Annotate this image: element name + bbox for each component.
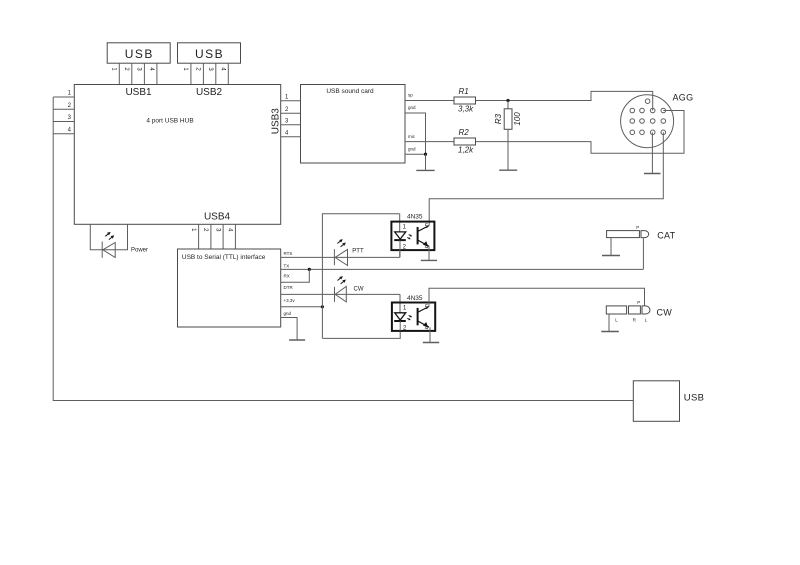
svg-text:gnd: gnd [408,147,416,152]
svg-text:1,2k: 1,2k [458,145,474,154]
LED Power wiring [90,224,127,250]
hub bottom pin 2 [202,224,211,249]
svg-text:4N35: 4N35 [407,214,423,221]
ground below AGG [644,173,661,175]
hub left pin 1 [53,91,74,97]
junction R1/R3 [506,99,509,102]
svg-text:P: P [637,300,640,305]
wire R1 to junction and AGG [476,91,653,110]
wire AGG PTT pin down-left to opto1 pin5 [429,132,663,225]
serial interface box [178,249,281,327]
USB plug box bottom right [633,381,704,422]
wire rail to opto2 pin2 [322,331,400,339]
hub right pin 3 [281,118,301,124]
hub right pin 1 (USB3) [281,94,301,100]
svg-text:RTS: RTS [284,251,293,256]
svg-text:USB4: USB4 [204,212,231,223]
connector USB1 pin 3 [136,63,145,84]
serial pin TX [281,263,644,269]
connector USB1 pin 1 [111,63,120,84]
svg-text:CW: CW [657,308,673,318]
svg-text:4N35: 4N35 [407,295,423,302]
optocoupler U2 4N35 upper [391,214,434,258]
wire opto1 pin4 to ground [428,246,430,260]
LED CW symbol [335,276,364,302]
junction +v rail [321,305,324,308]
wire opto2 pin4 to ground [429,327,431,342]
AGG pin row4 [630,130,666,135]
ground below opto1 [421,259,437,261]
hub left pin 4 [53,127,74,133]
svg-text:USB: USB [684,392,704,403]
sound card box [301,85,406,164]
hub bottom pin 4 [227,224,236,249]
svg-text:USB2: USB2 [196,87,223,98]
svg-text:CAT: CAT [657,231,675,241]
hub left pin 2 [53,103,74,109]
ground below sound card [416,169,434,171]
sound card pin mic [405,134,454,142]
connector USB2 pin 4 [220,63,229,84]
ground below opto2 [423,342,439,344]
svg-text:3,3k: 3,3k [458,105,474,114]
svg-text:gnd: gnd [284,311,292,316]
connector USB1 pin 4 [148,63,157,84]
svg-text:CW: CW [354,286,364,292]
serial pin DTR [281,285,400,294]
LED Power symbol [102,232,148,258]
hub right pin 4 [281,130,301,136]
connector USB1 box [107,43,170,63]
svg-text:R3: R3 [494,113,503,124]
ground below serial box [289,339,305,341]
serial pin +3,3v [281,298,323,307]
svg-text:AGG: AGG [673,93,694,103]
svg-text:R2: R2 [459,128,470,137]
hub right pin 2 [281,107,301,113]
sound card pin gnd upper [405,105,426,154]
wire PTT LED to opto1 pin2 [399,250,401,257]
svg-text:USB: USB [195,47,224,61]
svg-text:TX: TX [284,263,290,268]
svg-text:4 port USB HUB: 4 port USB HUB [146,117,193,124]
ground below CAT [602,255,620,257]
junction TX/RX [308,268,311,271]
wire R2 to AGG mic pin [476,111,685,154]
serial pin RX [281,269,310,282]
connector USB2 pin 3 [207,63,216,84]
wire R3 bottom stub [507,129,509,170]
svg-text:+3,3v: +3,3v [284,298,296,303]
wire CAT tip to TX line [642,238,644,269]
svg-text:sp: sp [408,93,413,98]
junction sound card gnd [424,153,427,156]
svg-text:mic: mic [408,134,416,139]
ground below CW [601,331,619,333]
wire CAT sleeve to ground [610,238,612,256]
connector USB2 pin 2 [195,63,204,84]
optocoupler U3 4N35 lower [392,295,435,332]
serial pin gnd [281,311,297,340]
wire +v rail [322,214,399,339]
svg-text:P: P [636,225,639,230]
svg-text:DTR: DTR [284,285,294,290]
serial pin RTS [281,251,400,257]
sound card pin gnd lower [405,147,426,155]
svg-text:PTT: PTT [352,248,364,254]
wire AGG gnd stub [651,132,653,173]
LED PTT symbol [334,239,364,265]
wire R3 top stub [507,101,509,109]
wire left bus down and across to USB plug [53,97,633,401]
wire CW LED to opto2 pin1 [399,294,401,312]
svg-text:R1: R1 [459,87,469,96]
resistor R3 [494,109,522,130]
hub bottom pin 3 [214,224,223,249]
sound card pin sp [405,93,454,101]
hub left pin 3 [53,115,74,121]
svg-text:USB: USB [125,47,154,61]
AGG pin row2 [630,108,666,113]
connector CW jack [606,300,672,322]
svg-text:USB3: USB3 [270,108,281,135]
svg-text:USB sound card: USB sound card [326,88,374,95]
wire gnd stub down [425,154,427,170]
connector CAT jack [607,225,676,241]
svg-text:Power: Power [131,247,148,253]
wire opto2 pin5 to CW tip [429,288,645,306]
connector USB2 box [178,43,241,63]
svg-text:USB1: USB1 [125,87,152,98]
connector AGG circle [621,93,694,148]
hub U1 4 port USB HUB box [74,85,281,225]
svg-text:RX: RX [284,274,290,279]
svg-text:USB to Serial (TTL) interface: USB to Serial (TTL) interface [182,254,266,261]
resistor R1 [454,87,476,114]
AGG pin top [645,99,650,104]
wire CW sleeve to ground [608,314,610,331]
svg-text:gnd: gnd [408,105,416,110]
connector USB1 pin 2 [123,63,132,84]
AGG pin row3 [630,119,666,124]
resistor R2 [454,128,476,155]
svg-text:100: 100 [513,112,522,126]
connector USB2 pin 1 [182,63,191,84]
ground below R3 [499,169,517,171]
hub bottom pin 1 (USB4) [190,224,199,249]
